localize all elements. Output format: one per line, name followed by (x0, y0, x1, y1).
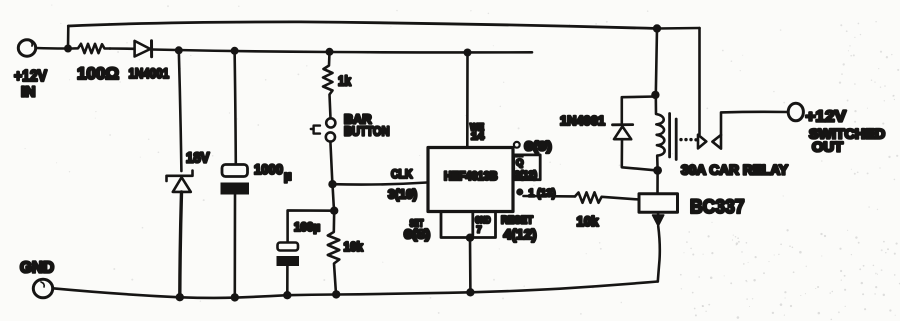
wire CLK to IC pin 3 (333, 183, 428, 185)
svg-text:Q: Q (516, 158, 523, 169)
wire zener branch top (179, 50, 182, 171)
svg-text:GND: GND (475, 215, 491, 225)
wire GND pin to bottom rail (469, 238, 472, 293)
svg-text:4(12): 4(12) (504, 227, 537, 242)
relay contact moving (712, 135, 721, 149)
svg-text:1 (13): 1 (13) (529, 188, 556, 200)
diode D2 1N4001 (flyback) (560, 97, 655, 171)
svg-text:IN: IN (21, 84, 36, 101)
diode D1 1N4001 (129, 41, 170, 81)
relay actuation dotted line (679, 138, 697, 142)
svg-text:6(8): 6(8) (404, 228, 430, 242)
svg-text:+12V: +12V (806, 109, 847, 126)
svg-text:BUTTON: BUTTON (344, 124, 390, 139)
svg-text:RESET: RESET (501, 215, 533, 227)
terminal +12V IN (14, 40, 47, 101)
svg-text:1000: 1000 (254, 161, 283, 177)
node coil bottom junction (653, 166, 662, 175)
wire junction to 100u cap (288, 210, 335, 242)
node rail IC gnd (466, 288, 474, 296)
wire contact to out terminal (721, 112, 788, 135)
relay core lines (668, 114, 671, 158)
wire cap 1000u branch top (235, 51, 236, 164)
svg-text:2(12): 2(12) (515, 170, 538, 181)
svg-text:CLK: CLK (391, 167, 413, 181)
svg-text:6(9): 6(9) (525, 140, 552, 154)
wire top rail to contact corner (657, 27, 700, 30)
pin box GND 7 (441, 212, 496, 238)
svg-text:1N4001: 1N4001 (129, 65, 170, 81)
wire junction up to top rail (67, 26, 70, 49)
wire CLK junction down (333, 184, 335, 211)
terminal GND (20, 260, 54, 298)
node diode tap (651, 91, 659, 99)
wire main rail y=50 (152, 50, 532, 53)
relay coil (656, 95, 665, 170)
transistor Q1 BC337 (639, 194, 745, 282)
svg-text:100Ω: 100Ω (77, 64, 119, 83)
svg-text:10k: 10k (344, 239, 364, 254)
node zener tap (175, 46, 183, 54)
terminal +12V SWITCHED OUT (788, 103, 885, 154)
resistor R2 1k (323, 52, 351, 119)
svg-text:BC337: BC337 (690, 197, 745, 218)
node WE tap (464, 49, 472, 57)
node rail 10k (332, 290, 340, 298)
svg-text:+12V: +12V (14, 68, 47, 85)
svg-text:HEF4013B: HEF4013B (444, 171, 498, 183)
svg-text:18V: 18V (186, 151, 210, 167)
node rail zener (176, 293, 184, 301)
wire Q output to 10k (524, 195, 576, 198)
zener diode 18V (167, 151, 210, 192)
node rail cap100 (283, 291, 291, 299)
wire zener to bottom rail (180, 192, 182, 297)
capacitor C1 1000µ (221, 161, 292, 195)
wire resistor to diode (110, 47, 134, 50)
relay contact fixed (698, 135, 706, 149)
wire top rail (68, 22, 657, 29)
switch BAR BUTTON (311, 112, 390, 142)
wire 100u to bottom rail (286, 266, 289, 295)
wire WE pin drop (466, 53, 469, 148)
resistor R4 10k (575, 192, 639, 229)
node rail cap1000 (231, 293, 239, 301)
svg-text:1N4001: 1N4001 (560, 113, 605, 128)
wire contact drop (698, 28, 701, 135)
resistor R1 100Ω (72, 44, 119, 83)
node input junction (64, 45, 72, 53)
svg-text:14: 14 (471, 132, 485, 143)
wire button to CLK junction (330, 142, 332, 184)
wire input to junction (36, 47, 64, 50)
pin Q 1(13) (516, 188, 556, 200)
svg-text:100µ: 100µ (294, 220, 320, 234)
svg-text:7: 7 (477, 225, 482, 235)
node GND pin (466, 234, 474, 242)
wire bottom rail (53, 282, 658, 298)
pin D 5(9) (514, 140, 552, 154)
wire collector (656, 170, 659, 193)
svg-text:OUT: OUT (812, 140, 844, 155)
svg-text:µ: µ (284, 168, 292, 183)
node cap 1000u tap (231, 47, 239, 55)
svg-text:10k: 10k (577, 214, 599, 229)
node top rail relay tap (653, 24, 661, 32)
node 1k tap (326, 48, 334, 56)
op-amp U1 HEF4013B body (428, 148, 513, 212)
wire cap to bottom rail (234, 195, 237, 298)
pin box Q-bar 2(12) (514, 155, 541, 181)
svg-text:GND: GND (20, 260, 54, 277)
svg-text:3(10): 3(10) (388, 188, 417, 202)
resistor R3 10k (328, 211, 364, 294)
capacitor C2 100µ (277, 220, 321, 266)
node cap/res junction (330, 207, 338, 215)
wire relay branch drop (656, 29, 657, 96)
svg-text:1k: 1k (338, 73, 351, 89)
node CLK junction (328, 180, 336, 188)
svg-text:30A CAR RELAY: 30A CAR RELAY (681, 163, 788, 178)
